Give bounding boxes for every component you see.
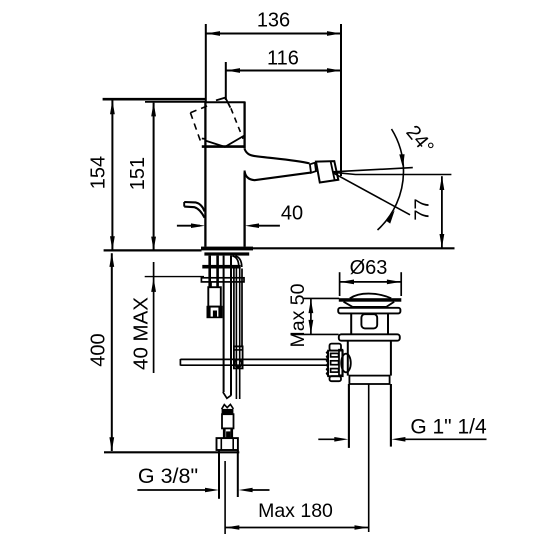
hose wall line 2: [241, 269, 243, 347]
40 MAX reference line: [145, 276, 204, 278]
drain top flange: [338, 308, 400, 314]
knurled knob slot 3: [331, 369, 339, 373]
G3/8 connector body: [222, 414, 234, 428]
handle left tick: [202, 138, 206, 141]
rod clamp top band: [234, 349, 243, 351]
angle 24 arc: [378, 129, 404, 230]
dimension Max 50 reference top: [303, 297, 339, 299]
knurled knob slot 2: [331, 361, 339, 365]
svg-text:Ø63: Ø63: [350, 257, 388, 279]
G3/8 connector center block: [226, 431, 230, 437]
G3/8 hex nut: [217, 438, 238, 450]
supply pipe center line: [224, 461, 226, 534]
dimension G3/8 arrow left: [205, 488, 219, 493]
drain bottom flange: [339, 334, 400, 340]
svg-text:116: 116: [267, 48, 299, 70]
knurled knob teeth: [327, 351, 329, 376]
dimension Max 50 arrow top: [309, 299, 314, 313]
G3/8 connector right band: [230, 428, 233, 438]
dimension Max 180 arrow right: [355, 525, 369, 530]
dimension diameter 63 arrow right: [387, 280, 401, 285]
knurled knob rim: [339, 350, 342, 376]
hose wall line 1: [233, 269, 235, 347]
faucet body right edge lower: [243, 172, 245, 247]
rod clamp block: [234, 346, 243, 368]
check valve cap left band: [207, 307, 210, 318]
supply pipe right wall: [230, 256, 232, 396]
supply pipe break symbol: [223, 392, 231, 398]
faucet body right edge upper: [243, 102, 245, 149]
check valve cap: [207, 307, 221, 318]
aerator body: [316, 161, 338, 182]
dimension 154 arrow bottom: [110, 236, 115, 250]
svg-text:400: 400: [88, 333, 110, 366]
handle tilted peak: [216, 98, 230, 108]
dimension Max 180 arrow left: [225, 525, 239, 530]
supply tail pipe left wall: [218, 450, 220, 499]
handle dashed tilted position top edge: [190, 104, 211, 112]
svg-text:Max 50: Max 50: [287, 283, 309, 347]
faucet base lower flange: [204, 252, 249, 255]
angle arc arrow lower: [386, 210, 395, 223]
svg-text:40: 40: [281, 203, 303, 225]
pop-up rod left wall: [235, 269, 237, 400]
drain tail pipe right wall: [390, 384, 392, 447]
hose curve 1: [232, 256, 239, 267]
svg-text:Max 180: Max 180: [258, 500, 333, 522]
rod clamp screw circle: [235, 360, 242, 367]
dimension 40 arrow right: [245, 223, 259, 228]
svg-text:136: 136: [257, 10, 290, 32]
drain center line: [368, 385, 370, 533]
pop-up lever top edge: [184, 202, 204, 212]
G3/8 hex nut facet left: [220, 438, 222, 450]
dimension diameter 63 line: [340, 281, 402, 283]
handle dashed tilted position right edge: [231, 108, 243, 139]
check valve neck right: [216, 282, 218, 287]
counter reference line left: [104, 249, 202, 251]
faucet base flange: [201, 247, 253, 251]
bottom reference line: [104, 451, 239, 453]
aerator neck ring: [310, 163, 316, 173]
dimension 77 line: [441, 176, 443, 248]
drain cap skirt right: [387, 302, 395, 307]
dimension G3/8 left line: [137, 489, 206, 491]
dimension 151 line: [153, 103, 155, 251]
pop-up rod right wall: [239, 269, 241, 400]
svg-text:154: 154: [88, 156, 110, 189]
check valve body: [208, 287, 221, 306]
faucet body left edge: [204, 102, 206, 247]
G3/8 connector break top: [222, 404, 234, 409]
drain diameter 63 extension right: [400, 272, 402, 296]
dimension 40 left line: [177, 225, 200, 227]
handle top reference line: [103, 98, 205, 101]
svg-text:151: 151: [127, 157, 149, 190]
dimension 400 arrow bottom: [109, 437, 114, 451]
drain cap dome: [350, 294, 391, 299]
drain lower body left edge: [347, 341, 349, 376]
dimension 116 arrow left: [226, 68, 240, 73]
horizontal drain rod top edge: [180, 358, 329, 360]
spout bottom edge: [245, 171, 311, 181]
dimension 136 arrow right: [327, 31, 341, 36]
dimension diameter 63 arrow left: [340, 280, 354, 285]
horizontal drain rod end cap: [179, 359, 181, 366]
dimension 136 line: [206, 33, 341, 35]
body top reference line: [145, 101, 205, 103]
dimension G 1" 1/4 left line: [318, 438, 335, 440]
dimension 151 arrow bottom: [151, 237, 156, 251]
G3/8 hex nut facet right: [232, 438, 234, 450]
svg-text:40 MAX: 40 MAX: [130, 297, 153, 370]
handle bottom V diagonals: [205, 135, 244, 147]
handle dashed tilted position left edge: [190, 113, 201, 144]
spray line lower: [333, 173, 410, 215]
dimension 40 right line: [258, 225, 280, 227]
spout top edge: [245, 149, 310, 164]
handle bottom edge: [202, 145, 245, 148]
drain overflow window: [361, 314, 377, 328]
drain diameter 63 extension left: [339, 272, 341, 296]
angle arc arrow upper: [399, 154, 404, 168]
dimension Max 50 reference bottom: [292, 333, 339, 335]
dimension 77 arrow top: [440, 176, 445, 190]
40 MAX arrow: [151, 278, 156, 292]
knurled knob top tab: [330, 344, 342, 351]
svg-text:G 3/8": G 3/8": [138, 464, 198, 488]
drain cap skirt bottom: [352, 306, 386, 308]
dimension 116 line: [226, 70, 341, 72]
counter reference line right: [253, 247, 455, 249]
svg-text:G 1" 1/4: G 1" 1/4: [410, 416, 487, 439]
check valve neck left: [210, 282, 212, 287]
drain body upper left edge: [350, 313, 352, 334]
threaded shank line 2: [216, 256, 219, 287]
dimension 136 extension line left: [205, 24, 207, 102]
drain body upper right edge: [387, 313, 389, 334]
threaded shank line 1: [208, 256, 211, 287]
dimension 154 line: [111, 101, 113, 250]
dimension 40 arrow left: [191, 223, 205, 228]
dimension 154 arrow top: [110, 100, 115, 114]
dimension G3/8 right line: [252, 489, 270, 491]
mounting nut bar 1: [202, 265, 240, 269]
handle top edge: [205, 101, 245, 103]
dimension 116 extension line left: [225, 62, 227, 100]
drain tail pipe left wall: [348, 384, 350, 448]
dimension 151 arrow top: [151, 102, 156, 116]
dimension G 1" 1/4 right line: [404, 438, 486, 440]
dimension G 1" 1/4 arrow right: [391, 437, 405, 442]
knurled knob slot 1: [331, 353, 339, 357]
G3/8 connector dark band: [222, 409, 234, 414]
dimension 400 arrow top: [109, 253, 114, 267]
svg-text:77: 77: [412, 198, 434, 220]
dimension Max 50 arrow bottom: [309, 320, 314, 334]
hose curve 2: [235, 256, 242, 267]
drain lower body right edge: [390, 341, 392, 376]
drain cap skirt left: [344, 302, 353, 307]
check valve cap right band: [218, 307, 221, 318]
knurled knob bottom tab: [330, 376, 342, 381]
pop-up lever end cap: [183, 202, 185, 207]
spray line upper: [333, 168, 413, 172]
dimension G3/8 arrow right: [239, 488, 253, 493]
dimension 77 arrow bottom: [440, 234, 445, 248]
drain ring section: [349, 376, 389, 384]
pop-up lever bottom edge: [184, 207, 204, 218]
horizontal drain rod bottom edge: [180, 364, 329, 366]
dimension Max 180 line: [225, 527, 368, 529]
dimension 116 arrow right: [327, 68, 341, 73]
40 MAX dimension line: [153, 262, 155, 373]
drain cap brim: [339, 298, 402, 302]
supply pipe left wall: [223, 256, 225, 392]
dimension 400 line: [111, 253, 113, 451]
supply tail pipe right wall: [237, 450, 239, 497]
knurled knob bump: [341, 354, 351, 373]
dimension G 1" 1/4 arrow left: [334, 437, 348, 442]
dimension 136 arrow left: [206, 31, 220, 36]
check valve cap center bar: [213, 311, 217, 318]
dimension Max 50 line: [310, 299, 312, 334]
G3/8 connector left band: [223, 428, 226, 438]
mounting nut bar 2: [201, 278, 244, 282]
spray horizontal reference line: [333, 172, 451, 174]
knurled knob body: [328, 351, 343, 377]
dimension 136/116 extension line right: [340, 24, 342, 176]
aerator inner line: [331, 161, 335, 180]
